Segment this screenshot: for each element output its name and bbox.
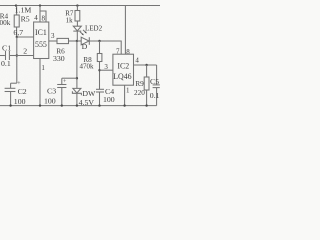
- node C3 branch junction: [76, 77, 78, 79]
- svg-text:R9: R9: [135, 80, 144, 88]
- node 6,7 junction: [16, 36, 18, 38]
- wire pins 6,7 to IC1: [17, 36, 34, 38]
- capacitor C1: [0, 55, 5, 57]
- node pin1 ground: [39, 104, 41, 106]
- svg-text:C5: C5: [150, 77, 159, 86]
- svg-text:220: 220: [134, 89, 145, 97]
- svg-text:1k: 1k: [66, 16, 74, 24]
- wire pin 8 jog: [40, 11, 46, 22]
- wire D cathode to IC2 pin7 corner: [89, 41, 121, 54]
- svg-text:2: 2: [23, 47, 27, 56]
- node rail junction R5: [15, 4, 17, 6]
- wire pin 2 to IC1: [17, 55, 34, 57]
- wire pin 1 to ground: [39, 59, 41, 106]
- wire LED2 cathode to node: [76, 31, 78, 41]
- wire R5 top lead: [16, 6, 18, 16]
- LED LED2: [73, 26, 81, 31]
- node R8 junction: [98, 40, 100, 42]
- svg-text:IC1: IC1: [35, 28, 47, 37]
- node C3 ground: [61, 104, 63, 106]
- svg-text:R5: R5: [21, 15, 30, 24]
- resistor R5: [14, 15, 19, 27]
- wire pin 4: [39, 6, 41, 23]
- svg-text:C1: C1: [2, 44, 11, 53]
- node DW ground: [76, 104, 78, 106]
- svg-text:3: 3: [51, 32, 55, 40]
- svg-text:6,7: 6,7: [13, 28, 23, 37]
- wire vertical node to C1/C2: [16, 37, 18, 83]
- capacitor C3: [61, 78, 63, 84]
- wire node down to zener: [76, 41, 78, 88]
- svg-text:470k: 470k: [80, 62, 95, 70]
- svg-text:IC2: IC2: [117, 61, 129, 70]
- svg-text:3: 3: [104, 63, 108, 71]
- resistor R6: [57, 38, 69, 43]
- wire R5 bottom lead: [16, 27, 18, 37]
- wire top +V rail: [0, 5, 160, 7]
- svg-text:555: 555: [35, 40, 47, 49]
- svg-text:8: 8: [42, 14, 46, 22]
- wire R6 to node: [69, 40, 82, 42]
- svg-text:D: D: [82, 42, 88, 51]
- svg-text:8: 8: [126, 48, 130, 56]
- capacitor C5: [153, 84, 160, 86]
- node C4 ground: [98, 104, 100, 106]
- op-amp U1 body: IC1 555 box: [34, 22, 49, 59]
- node rail junction R7: [76, 4, 78, 6]
- node rail junction 555: [39, 4, 41, 6]
- wire R7 top lead: [76, 6, 78, 11]
- diode D: [81, 37, 89, 45]
- svg-text:DW: DW: [82, 89, 96, 98]
- svg-text:4: 4: [34, 14, 38, 22]
- wire bottom ground rail: [0, 105, 157, 107]
- node IC2 pin3 junction: [98, 69, 100, 71]
- wire pin 3: [49, 40, 57, 42]
- wire R8 top lead: [99, 41, 101, 54]
- node C2 ground: [9, 104, 11, 106]
- node IC2 pin1 ground: [123, 104, 125, 106]
- svg-text:0.1: 0.1: [150, 91, 160, 100]
- wire C5 corner: [156, 65, 158, 85]
- wire IC2 pin 1 to ground: [124, 85, 126, 105]
- node LED2/R6/D junction: [76, 40, 78, 42]
- wire IC2 pin 8 from rail: [124, 6, 126, 55]
- svg-text:4.5V: 4.5V: [79, 98, 95, 107]
- wire R8 bottom lead: [99, 62, 101, 90]
- svg-text:1: 1: [41, 64, 45, 72]
- wire IC2 pin 4 output: [134, 64, 157, 66]
- svg-text:4: 4: [135, 57, 139, 65]
- wire R7 to LED2: [76, 21, 78, 26]
- svg-text:100: 100: [44, 97, 56, 106]
- node R9 junction: [145, 64, 147, 66]
- svg-text:C3: C3: [47, 87, 56, 96]
- wire R9 top lead: [146, 65, 148, 77]
- svg-text:100: 100: [14, 97, 26, 106]
- svg-text:100: 100: [103, 95, 115, 104]
- resistor R9: [144, 77, 149, 90]
- svg-text:C2: C2: [18, 87, 27, 96]
- svg-text:1: 1: [126, 87, 130, 95]
- svg-text:00k: 00k: [0, 19, 11, 27]
- wire pin 3 to IC2: [100, 69, 113, 71]
- svg-text:330: 330: [53, 54, 65, 63]
- svg-text:1.1M: 1.1M: [15, 6, 32, 15]
- wire C3 branch: [62, 77, 77, 79]
- wire jog to C2: [11, 82, 17, 84]
- resistor R8: [97, 54, 102, 62]
- capacitor C4: [96, 88, 104, 90]
- svg-text:LED2: LED2: [85, 24, 103, 32]
- svg-text:0.1: 0.1: [1, 59, 11, 68]
- zener DW: [73, 88, 81, 93]
- resistor R7: [75, 11, 80, 22]
- IC2 box LQ46: [113, 54, 134, 85]
- capacitor C2: [10, 83, 12, 88]
- wire R9 bottom lead: [146, 90, 148, 106]
- node R9 ground: [145, 104, 147, 106]
- svg-text:7: 7: [116, 48, 120, 56]
- svg-text:LQ46: LQ46: [113, 72, 131, 81]
- node C1 junction: [16, 54, 18, 56]
